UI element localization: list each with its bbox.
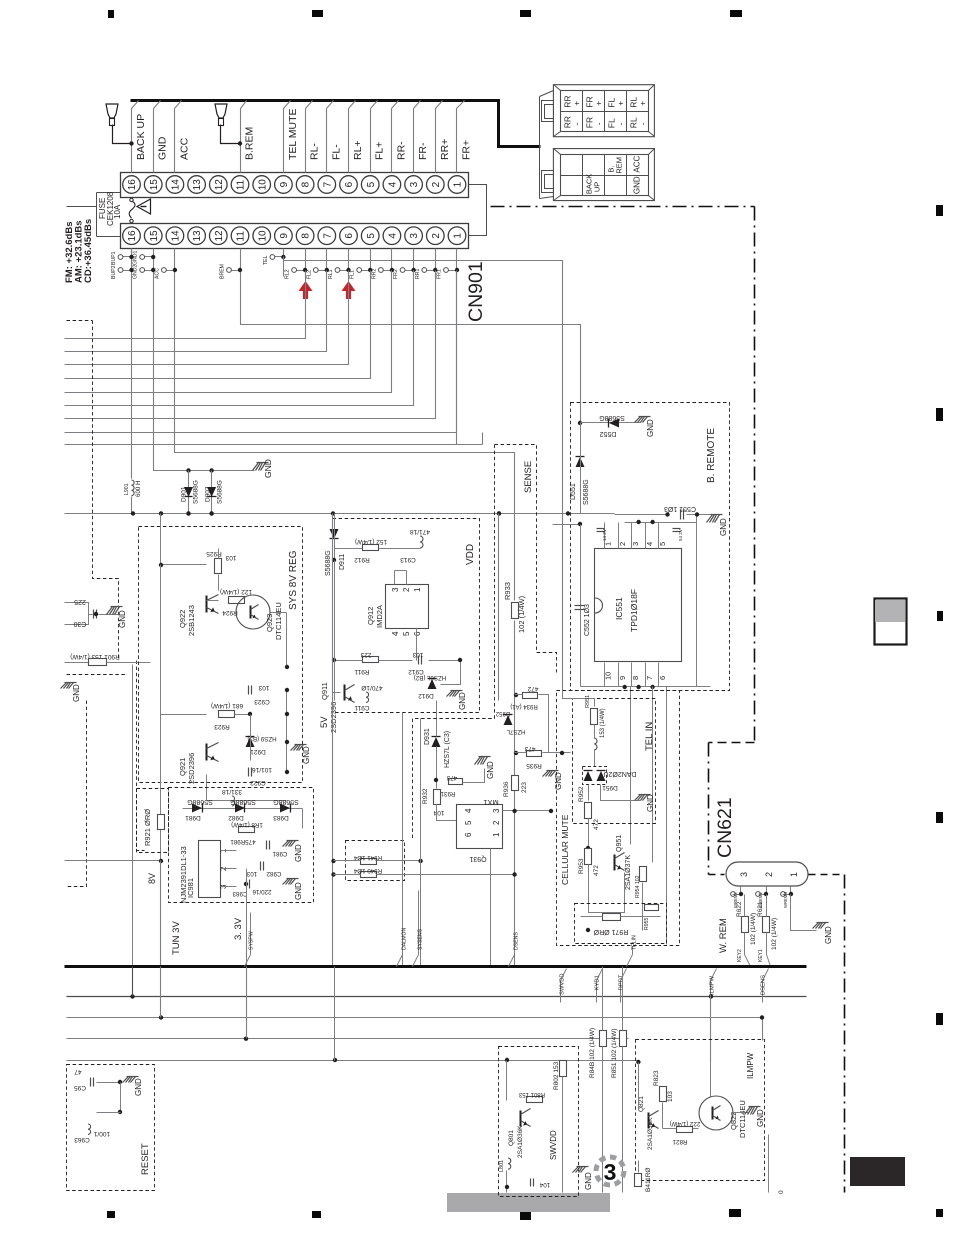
- svg-text:4: 4: [464, 808, 473, 813]
- svg-text:C963: C963: [74, 1136, 90, 1143]
- svg-text:GND: GND: [302, 746, 311, 764]
- svg-text:6: 6: [464, 832, 473, 837]
- svg-text:FR1: FR1: [437, 269, 443, 279]
- svg-text:DTC114EU: DTC114EU: [274, 602, 283, 640]
- svg-text:472: 472: [593, 819, 600, 830]
- svg-text:9: 9: [618, 676, 627, 680]
- svg-text:C552 1Ø3: C552 1Ø3: [584, 604, 591, 636]
- svg-text:-: -: [615, 122, 625, 125]
- svg-text:GND: GND: [157, 136, 169, 160]
- svg-text:D911: D911: [339, 554, 346, 570]
- svg-text:R941 1Ø4: R941 1Ø4: [353, 854, 382, 861]
- svg-text:R621: R621: [757, 901, 764, 917]
- svg-text:R911: R911: [354, 668, 369, 675]
- svg-text:2: 2: [764, 872, 774, 877]
- svg-text:15: 15: [149, 179, 160, 191]
- svg-text:Q912: Q912: [366, 607, 375, 625]
- svg-text:GND1: GND1: [133, 250, 139, 265]
- svg-text:ACC: ACC: [178, 137, 190, 160]
- svg-text:6: 6: [344, 233, 355, 239]
- svg-text:BACK UP: BACK UP: [135, 114, 147, 160]
- svg-text:222 (1/4W): 222 (1/4W): [670, 1120, 701, 1127]
- svg-text:1: 1: [453, 181, 464, 187]
- svg-text:9: 9: [279, 233, 290, 239]
- svg-text:5: 5: [366, 233, 377, 239]
- svg-text:R802 153: R802 153: [553, 1061, 560, 1090]
- svg-text:Q931: Q931: [469, 855, 486, 862]
- svg-text:103: 103: [667, 1091, 674, 1102]
- svg-text:B.REM: B.REM: [244, 127, 256, 160]
- svg-text:C922: C922: [250, 779, 266, 786]
- svg-text:103: 103: [246, 870, 257, 877]
- svg-text:Q922: Q922: [178, 610, 187, 628]
- svg-text:7: 7: [322, 181, 333, 187]
- svg-text:D982: D982: [228, 814, 244, 821]
- svg-text:RESET: RESET: [140, 1143, 151, 1175]
- svg-text:WREMD: WREMD: [783, 892, 788, 908]
- svg-text:104: 104: [433, 809, 444, 816]
- svg-text:R954 102: R954 102: [635, 875, 641, 898]
- svg-text:L901: L901: [124, 483, 130, 495]
- svg-text:54 2V: 54 2V: [678, 529, 683, 541]
- svg-text:DTC114EU: DTC114EU: [738, 1100, 747, 1138]
- svg-text:DALMON: DALMON: [402, 928, 408, 950]
- svg-text:4: 4: [388, 233, 399, 239]
- svg-text:R925: R925: [206, 550, 222, 557]
- svg-text:RR: RR: [562, 116, 572, 128]
- svg-text:GND: GND: [72, 684, 81, 702]
- svg-text:R821: R821: [672, 1138, 687, 1145]
- svg-text:DSENS: DSENS: [761, 975, 767, 995]
- svg-text:UP: UP: [592, 182, 601, 192]
- svg-text:220/16: 220/16: [252, 888, 271, 895]
- svg-text:DAN2Ø2U: DAN2Ø2U: [603, 770, 636, 777]
- svg-text:2: 2: [431, 181, 442, 187]
- svg-text:D551: D551: [570, 483, 577, 500]
- svg-text:D952: D952: [495, 710, 510, 716]
- svg-text:5: 5: [658, 542, 667, 546]
- svg-text:3: 3: [739, 872, 749, 877]
- svg-text:11: 11: [236, 179, 247, 190]
- svg-text:101/16: 101/16: [252, 766, 272, 773]
- svg-text:ILMPW: ILMPW: [710, 975, 716, 995]
- svg-text:TELIN: TELIN: [632, 935, 638, 950]
- svg-text:6: 6: [413, 631, 422, 636]
- svg-text:+: +: [571, 101, 581, 106]
- svg-text:B. REMOTE: B. REMOTE: [706, 428, 717, 483]
- svg-text:GND: GND: [824, 926, 833, 944]
- svg-text:SWVDD: SWVDD: [549, 1130, 558, 1160]
- svg-text:NJM2391DL1-33: NJM2391DL1-33: [179, 846, 188, 903]
- svg-text:R933: R933: [503, 582, 512, 600]
- svg-text:2SD2396: 2SD2396: [187, 753, 196, 784]
- svg-text:6: 6: [658, 676, 667, 680]
- svg-text:GND: GND: [294, 844, 303, 862]
- svg-text:9: 9: [279, 181, 290, 187]
- svg-text:S5688G: S5688G: [273, 798, 299, 805]
- svg-text:MX1: MX1: [483, 798, 498, 807]
- svg-text:0: 0: [778, 1190, 785, 1194]
- svg-text:100/1: 100/1: [93, 1130, 110, 1137]
- svg-text:GND: GND: [554, 772, 563, 790]
- svg-text:C923: C923: [254, 698, 270, 705]
- svg-text:KEY1: KEY1: [758, 949, 764, 962]
- svg-text:3: 3: [492, 808, 501, 813]
- svg-text:3: 3: [604, 1159, 617, 1185]
- svg-text:D981: D981: [185, 814, 201, 821]
- svg-text:470/1Ø: 470/1Ø: [361, 684, 382, 691]
- svg-text:TUN 3V: TUN 3V: [171, 921, 182, 955]
- svg-text:R924: R924: [222, 609, 238, 616]
- svg-text:R955: R955: [644, 917, 650, 930]
- svg-text:SYS 8V REG: SYS 8V REG: [288, 550, 299, 610]
- svg-text:D552: D552: [600, 430, 617, 437]
- svg-text:ILMPW: ILMPW: [746, 1052, 755, 1079]
- svg-text:3: 3: [409, 233, 420, 239]
- svg-text:10A: 10A: [113, 204, 122, 219]
- svg-text:HZS6L (B2): HZS6L (B2): [414, 674, 446, 681]
- svg-text:R951: R951: [585, 695, 591, 708]
- svg-text:2SB1243: 2SB1243: [187, 605, 196, 636]
- svg-text:GND: GND: [646, 794, 655, 812]
- svg-text:Q923: Q923: [265, 614, 274, 632]
- svg-text:R953: R953: [578, 858, 585, 874]
- svg-text:CN901: CN901: [465, 261, 487, 322]
- svg-text:8: 8: [301, 181, 312, 187]
- svg-text:D912: D912: [418, 692, 434, 699]
- svg-text:-: -: [593, 122, 603, 125]
- svg-text:REM: REM: [614, 157, 623, 174]
- svg-text:R851 102 (1/4W): R851 102 (1/4W): [611, 1029, 618, 1079]
- svg-text:SYSENS: SYSENS: [418, 928, 424, 950]
- svg-text:2SA1Ø36K: 2SA1Ø36K: [517, 1125, 524, 1158]
- svg-text:C912: C912: [408, 668, 424, 675]
- svg-text:15: 15: [149, 230, 160, 242]
- svg-text:R935: R935: [526, 762, 542, 769]
- svg-text:7: 7: [322, 233, 333, 239]
- svg-text:8: 8: [301, 233, 312, 239]
- svg-text:102 (1/4W): 102 (1/4W): [750, 913, 757, 945]
- svg-text:Q821: Q821: [638, 1096, 645, 1112]
- svg-text:11: 11: [236, 231, 247, 242]
- svg-text:223: 223: [360, 651, 371, 658]
- svg-text:153 (1/4W): 153 (1/4W): [600, 708, 606, 738]
- svg-text:-: -: [637, 122, 647, 125]
- svg-text:1: 1: [604, 542, 613, 546]
- svg-text:S5688G: S5688G: [325, 550, 332, 576]
- svg-text:C982: C982: [266, 870, 281, 877]
- svg-text:5: 5: [402, 631, 411, 636]
- svg-text:GND: GND: [719, 518, 728, 536]
- svg-text:GND2: GND2: [133, 264, 139, 279]
- svg-text:FR2: FR2: [393, 269, 399, 279]
- svg-text:1: 1: [453, 233, 464, 239]
- svg-text:16: 16: [127, 179, 138, 191]
- svg-text:C30: C30: [73, 620, 86, 627]
- svg-text:ACC: ACC: [632, 155, 641, 172]
- svg-text:FL+: FL+: [374, 142, 386, 160]
- svg-text:D951: D951: [602, 784, 618, 791]
- svg-text:13: 13: [192, 230, 203, 242]
- svg-text:14: 14: [171, 230, 182, 242]
- svg-text:FL-: FL-: [330, 144, 342, 160]
- svg-text:RR2: RR2: [371, 269, 377, 279]
- svg-text:GND: GND: [118, 610, 127, 628]
- svg-text:102 (1/4W): 102 (1/4W): [771, 918, 778, 950]
- svg-text:C911: C911: [354, 704, 369, 711]
- svg-text:R801 153: R801 153: [518, 1091, 545, 1097]
- svg-text:1: 1: [413, 587, 422, 592]
- svg-text:D931: D931: [424, 728, 431, 745]
- svg-text:RL2: RL2: [285, 269, 291, 279]
- svg-text:2SD2396: 2SD2396: [329, 702, 338, 733]
- svg-text:BUP1: BUP1: [111, 251, 117, 265]
- svg-text:KEY2: KEY2: [737, 949, 743, 962]
- svg-text:Q921: Q921: [178, 758, 187, 776]
- svg-text:BUP2: BUP2: [111, 265, 117, 279]
- svg-text:R932: R932: [422, 788, 429, 804]
- svg-text:+: +: [615, 101, 625, 106]
- svg-text:R84B 102 (1/4W): R84B 102 (1/4W): [589, 1028, 596, 1078]
- svg-text:5: 5: [366, 181, 377, 187]
- svg-text:GND: GND: [486, 761, 495, 779]
- svg-text:BREM: BREM: [220, 264, 226, 279]
- svg-text:RL+: RL+: [352, 140, 364, 160]
- svg-text:RL-: RL-: [309, 143, 321, 160]
- svg-text:IC551: IC551: [614, 597, 624, 620]
- svg-text:+: +: [593, 101, 603, 106]
- svg-text:SENSE: SENSE: [523, 461, 534, 493]
- svg-text:DSENS: DSENS: [514, 932, 520, 950]
- svg-text:3: 3: [391, 587, 400, 592]
- svg-text:L801: L801: [499, 1160, 505, 1172]
- svg-text:10: 10: [604, 672, 613, 680]
- svg-text:VDD: VDD: [465, 544, 476, 565]
- svg-text:R923: R923: [214, 723, 230, 730]
- svg-text:TPD1Ø18F: TPD1Ø18F: [629, 589, 639, 632]
- svg-text:ACC: ACC: [154, 268, 160, 279]
- svg-text:Q951: Q951: [616, 835, 623, 852]
- svg-text:475R981: 475R981: [230, 838, 256, 845]
- svg-text:FR-: FR-: [417, 142, 429, 160]
- svg-text:2: 2: [492, 820, 501, 825]
- svg-text:Q822: Q822: [729, 1112, 738, 1130]
- svg-text:12: 12: [214, 230, 225, 242]
- svg-text:GND: GND: [646, 419, 655, 437]
- svg-text:471/18: 471/18: [410, 528, 430, 535]
- svg-text:2SA1Ø37K: 2SA1Ø37K: [625, 855, 632, 890]
- svg-text:122 (1/4W): 122 (1/4W): [220, 588, 252, 595]
- svg-text:RR+: RR+: [439, 139, 451, 160]
- svg-text:103: 103: [412, 651, 423, 658]
- svg-text:S5688G: S5688G: [187, 798, 213, 805]
- svg-text:102 (1/4W): 102 (1/4W): [517, 595, 526, 633]
- svg-text:C551 1Ø3: C551 1Ø3: [664, 505, 696, 512]
- svg-text:DPDT: DPDT: [619, 974, 625, 990]
- svg-text:473: 473: [446, 774, 457, 781]
- svg-text:12: 12: [214, 179, 225, 191]
- svg-text:8: 8: [631, 676, 640, 680]
- svg-text:D983: D983: [273, 814, 289, 821]
- svg-text:R971 ØRØ: R971 ØRØ: [593, 928, 628, 935]
- svg-text:10: 10: [257, 230, 268, 242]
- svg-text:FR+: FR+: [461, 140, 473, 160]
- svg-text:S5688G: S5688G: [193, 480, 200, 504]
- svg-text:473: 473: [524, 745, 535, 752]
- svg-text:TEL MUTE: TEL MUTE: [287, 108, 299, 160]
- svg-text:SWVDD: SWVDD: [560, 973, 566, 995]
- svg-text:13: 13: [192, 179, 203, 191]
- svg-text:10: 10: [257, 179, 268, 191]
- svg-text:4: 4: [388, 181, 399, 187]
- svg-text:CD:+36.45dBs: CD:+36.45dBs: [83, 219, 94, 283]
- svg-text:HZS9 (B3): HZS9 (B3): [247, 735, 276, 742]
- svg-text:223: 223: [521, 782, 528, 793]
- svg-text:KYD1: KYD1: [595, 975, 601, 990]
- svg-text:B411RØ: B411RØ: [645, 1168, 652, 1192]
- svg-text:4: 4: [645, 542, 654, 546]
- svg-text:D901: D901: [181, 486, 188, 502]
- svg-text:472: 472: [527, 685, 538, 692]
- svg-text:3. 3V: 3. 3V: [233, 917, 244, 940]
- svg-text:+: +: [637, 101, 647, 106]
- svg-text:2: 2: [431, 233, 442, 239]
- svg-text:681 (1/4W): 681 (1/4W): [211, 702, 243, 709]
- svg-text:SYSPW: SYSPW: [249, 931, 255, 950]
- svg-text:2: 2: [402, 587, 411, 592]
- svg-text:472: 472: [593, 865, 600, 876]
- svg-text:C913: C913: [400, 556, 416, 563]
- svg-text:S5688G: S5688G: [217, 480, 224, 504]
- svg-text:GND: GND: [756, 1109, 765, 1127]
- svg-text:331/18: 331/18: [222, 788, 242, 795]
- svg-text:C981: C981: [272, 850, 287, 857]
- svg-text:D902: D902: [205, 486, 212, 502]
- svg-text:152 (1/4W): 152 (1/4W): [355, 538, 387, 545]
- svg-text:R622: R622: [736, 901, 743, 917]
- svg-text:5V: 5V: [319, 716, 330, 728]
- svg-text:7: 7: [645, 676, 654, 680]
- svg-text:14 2V: 14 2V: [602, 529, 607, 541]
- svg-text:Q911: Q911: [320, 682, 329, 700]
- svg-text:R912: R912: [354, 556, 370, 563]
- svg-text:4: 4: [391, 631, 400, 636]
- svg-text:TEL IN: TEL IN: [644, 722, 655, 751]
- svg-text:GND: GND: [632, 176, 641, 194]
- svg-text:W. REM: W. REM: [718, 918, 729, 953]
- svg-text:R940 1Ø4: R940 1Ø4: [353, 867, 382, 874]
- svg-text:D921: D921: [250, 748, 266, 755]
- svg-text:8V: 8V: [147, 873, 157, 884]
- svg-text:FL2: FL2: [306, 270, 312, 279]
- svg-text:R931: R931: [440, 790, 455, 797]
- svg-text:3: 3: [631, 542, 640, 546]
- svg-text:IMD2A: IMD2A: [375, 605, 384, 628]
- svg-text:47: 47: [74, 1068, 82, 1075]
- svg-text:RR-: RR-: [395, 141, 407, 160]
- svg-text:103: 103: [225, 554, 236, 561]
- svg-text:104: 104: [539, 1181, 550, 1188]
- svg-text:S5688G: S5688G: [599, 414, 625, 421]
- svg-text:14: 14: [171, 179, 182, 191]
- svg-text:2: 2: [618, 542, 627, 546]
- svg-text:R921 ØRØ: R921 ØRØ: [143, 809, 152, 846]
- svg-text:6: 6: [344, 181, 355, 187]
- svg-text:1: 1: [492, 832, 501, 837]
- svg-text:HZS7L: HZS7L: [506, 728, 525, 734]
- svg-text:1R8 (1/4W): 1R8 (1/4W): [231, 821, 263, 828]
- svg-text:GND: GND: [294, 882, 303, 900]
- svg-text:103: 103: [258, 684, 269, 691]
- svg-text:1: 1: [789, 872, 799, 877]
- svg-text:CELLULAR MUTE: CELLULAR MUTE: [560, 814, 570, 885]
- svg-text:2SA1Ø36K: 2SA1Ø36K: [647, 1117, 654, 1150]
- svg-text:225: 225: [74, 598, 86, 605]
- svg-text:3: 3: [409, 181, 420, 187]
- svg-text:FL1: FL1: [350, 270, 356, 279]
- svg-text:S5688G: S5688G: [583, 479, 590, 505]
- svg-text:S5688G: S5688G: [230, 798, 256, 805]
- svg-text:R952: R952: [578, 786, 585, 802]
- svg-text:16: 16: [127, 230, 138, 242]
- svg-text:Q801: Q801: [508, 1130, 515, 1146]
- svg-text:R934 (A1): R934 (A1): [510, 703, 537, 709]
- svg-text:GND: GND: [458, 692, 467, 710]
- svg-text:GND: GND: [584, 1172, 593, 1190]
- svg-text:HZS7L (C3): HZS7L (C3): [444, 731, 451, 768]
- svg-text:TEL: TEL: [263, 255, 269, 265]
- svg-text:RR1: RR1: [415, 269, 421, 279]
- svg-text:-: -: [571, 122, 581, 125]
- svg-text:GND: GND: [263, 459, 273, 478]
- svg-text:R936: R936: [503, 781, 510, 797]
- svg-text:GND: GND: [134, 1078, 143, 1096]
- svg-text:R823: R823: [653, 1070, 660, 1086]
- svg-text:600 H: 600 H: [135, 480, 142, 497]
- svg-text:C95: C95: [74, 1084, 86, 1091]
- svg-text:CN621: CN621: [714, 797, 736, 858]
- svg-text:5: 5: [464, 820, 473, 825]
- svg-text:RL1: RL1: [328, 269, 334, 279]
- svg-text:C983: C983: [232, 890, 247, 897]
